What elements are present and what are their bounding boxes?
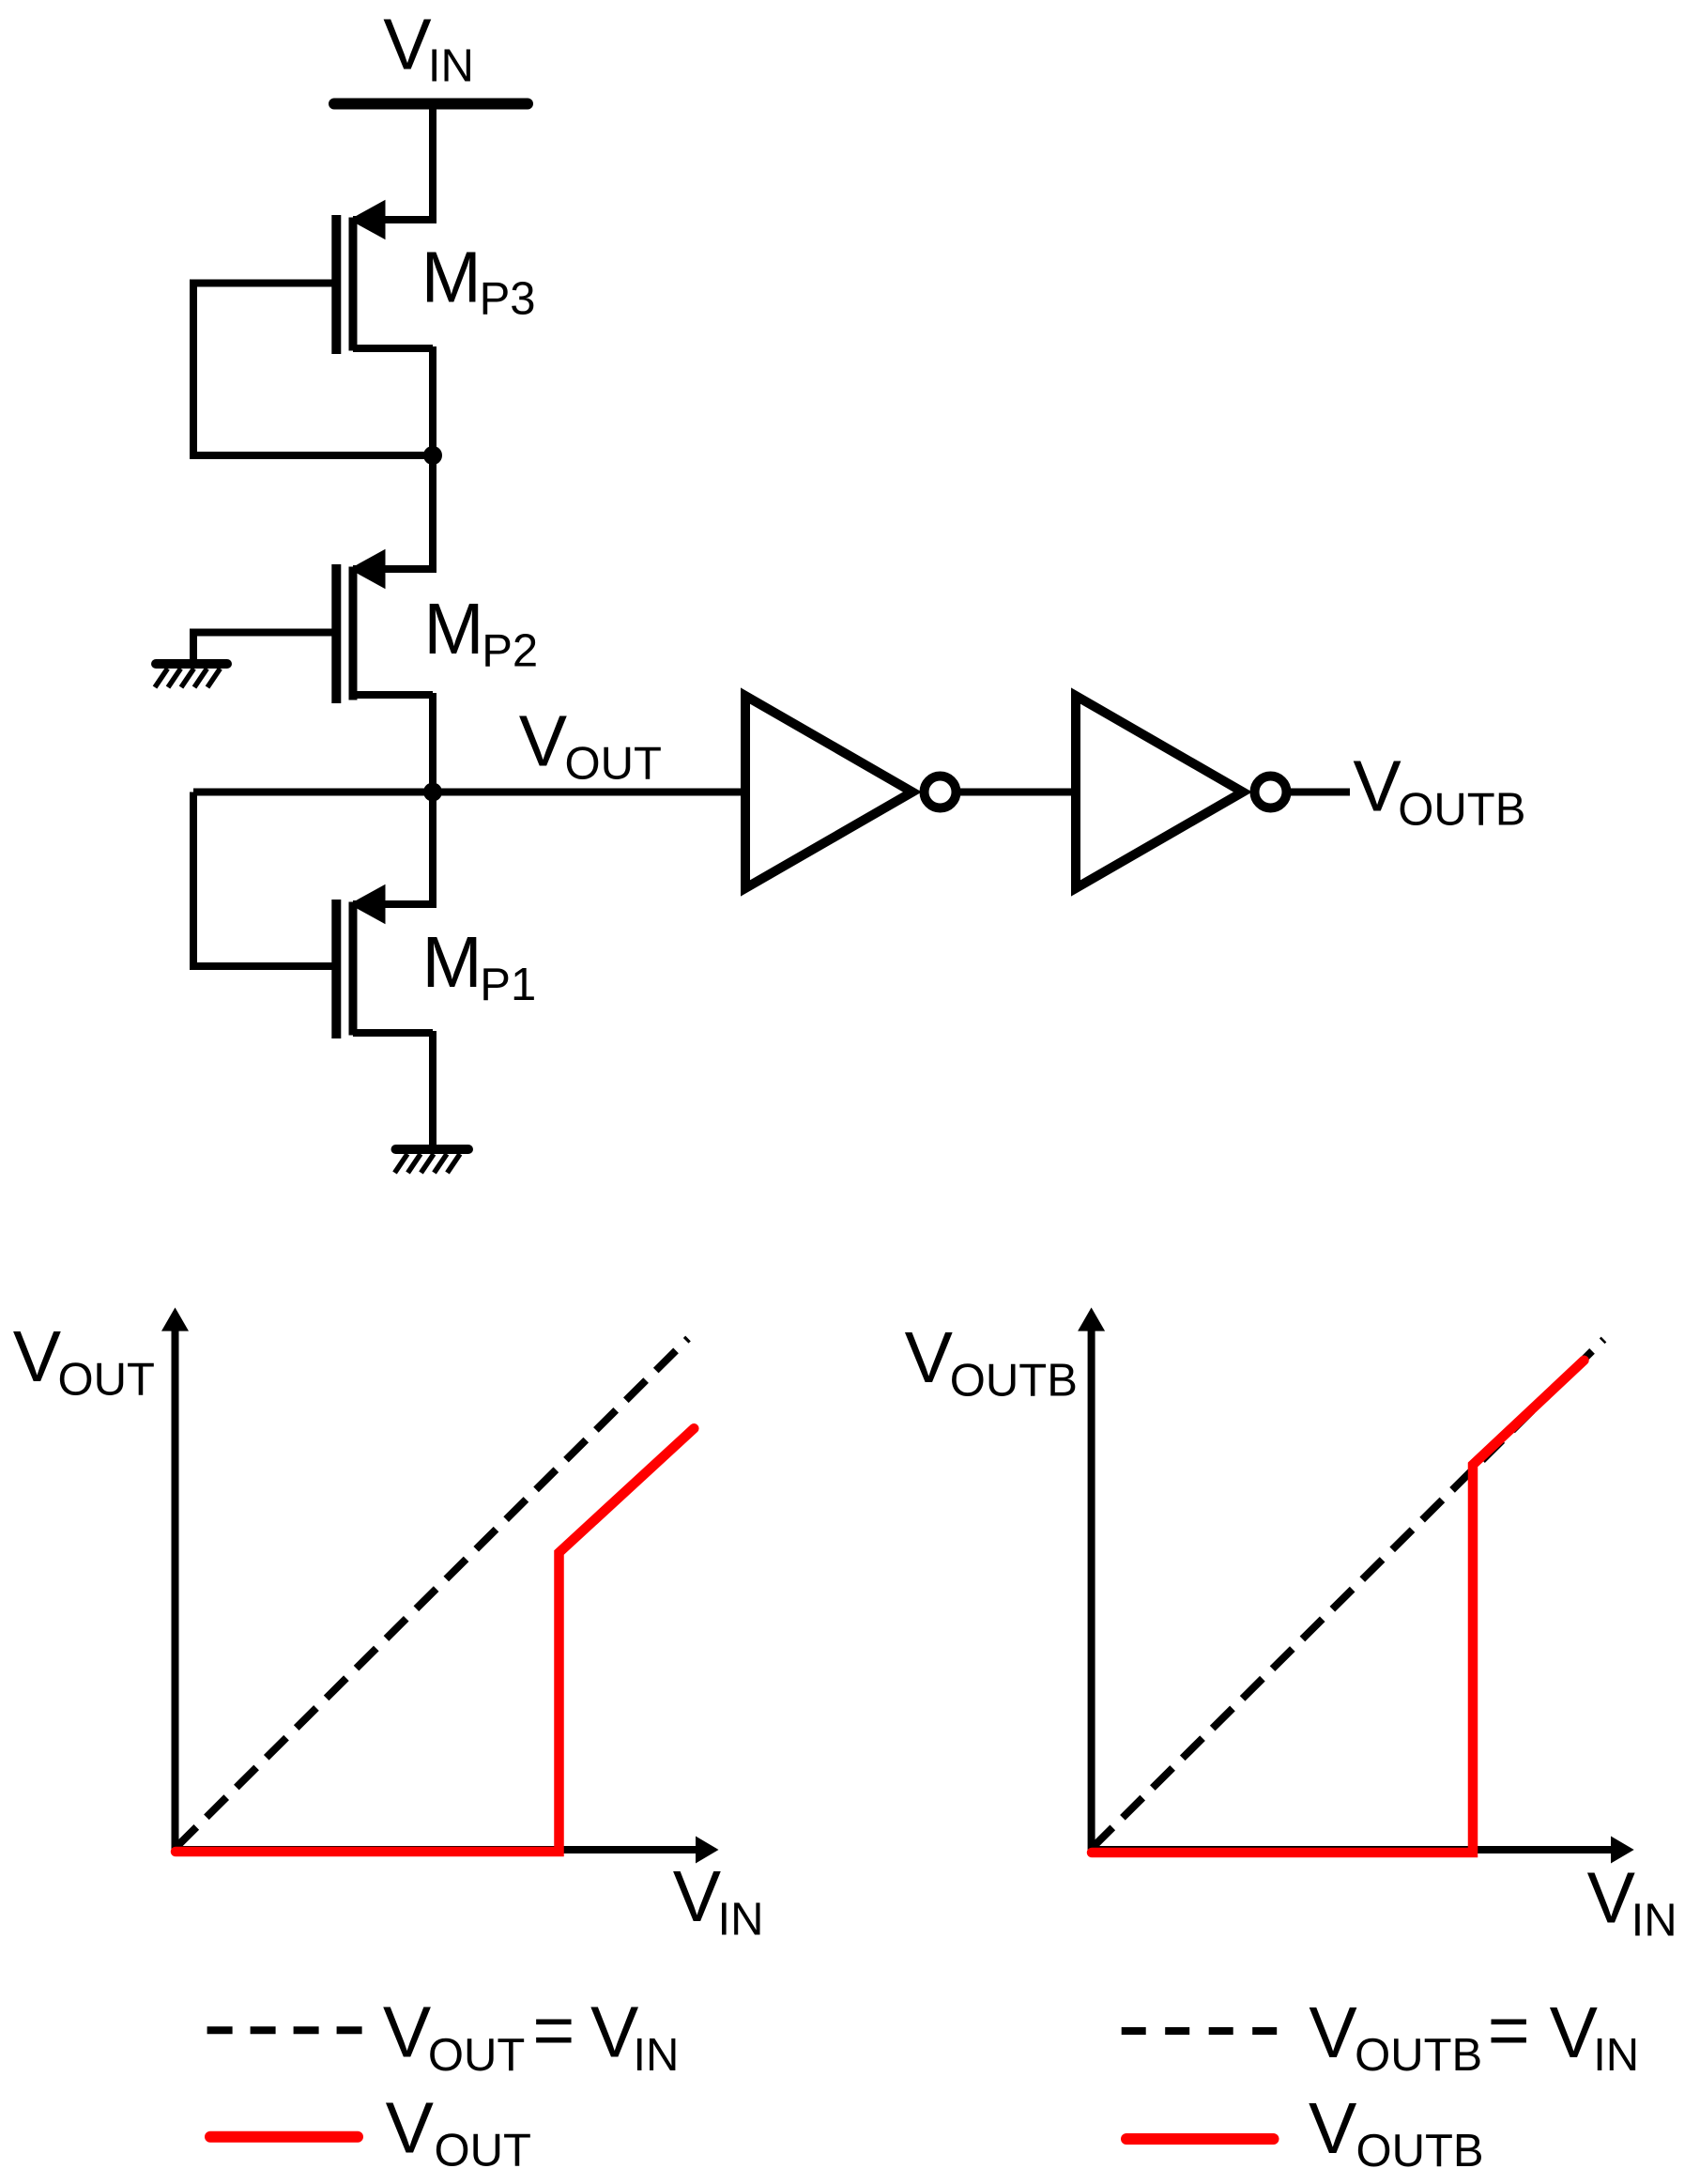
inverter U2 [1076,696,1287,888]
left graph x-axis label VIN [673,1856,764,1946]
svg-text:V: V [13,1316,62,1397]
wire MP3 drain to MP2 source [429,346,436,573]
wire MP2 drain to MP1 source [429,693,436,908]
svg-text:P1: P1 [480,960,536,1010]
left graph y-axis label VOUT [13,1316,155,1406]
svg-text:V: V [590,1992,639,2073]
left graph dashed line VOUT=VIN [176,1339,688,1848]
wire U1 to U2 [960,789,1076,796]
right legend red sample [1126,2133,1274,2145]
svg-text:V: V [673,1856,722,1937]
right graph y-axis [1078,1308,1105,1851]
svg-text:P2: P2 [482,626,538,677]
svg-text:M: M [423,589,483,669]
svg-text:M: M [421,237,482,317]
right graph red curve VOUTB [1092,1361,1585,1853]
svg-text:OUT: OUT [435,2125,531,2176]
svg-text:M: M [422,922,482,1003]
right graph x-axis label VIN [1587,1857,1677,1946]
svg-text:IN: IN [1593,2030,1639,2081]
svg-text:OUTB: OUTB [950,1355,1078,1406]
node MP3 drain junction [423,446,442,465]
svg-text:OUTB: OUTB [1355,2030,1482,2081]
svg-text:IN: IN [428,41,474,92]
svg-text:OUT: OUT [428,2030,525,2081]
svg-text:IN: IN [1631,1896,1677,1946]
right graph y-axis label VOUTB [905,1317,1078,1406]
left graph red curve VOUT [176,1428,694,1852]
wire VOUT horizontal (MP1 gate tie and to inverter) [193,789,745,796]
wire MP3 gate-drain diode loop [193,284,433,456]
svg-text:OUT: OUT [58,1355,155,1406]
transistor MP1 [331,884,433,1038]
right legend label VOUTB = VIN [1309,1991,1639,2081]
node VOUT label [519,701,662,790]
svg-text:=: = [532,1991,574,2071]
svg-text:V: V [519,701,568,782]
left graph y-axis [161,1308,189,1851]
left legend label VOUT = VIN [383,1991,680,2081]
svg-text:P3: P3 [480,274,536,325]
svg-text:OUTB: OUTB [1398,785,1525,836]
svg-text:V: V [383,1992,432,2073]
svg-text:OUT: OUT [565,738,662,789]
right graph x-axis [1092,1837,1634,1864]
left legend dashed sample [207,2026,363,2034]
ground (MP1 drain) [395,1149,469,1173]
svg-text:OUTB: OUTB [1356,2126,1484,2176]
svg-text:V: V [1309,1992,1357,2073]
ground (MP2 gate) [155,664,227,687]
VIN supply rail [334,99,528,110]
svg-text:V: V [1309,2088,1357,2169]
node VOUT junction [423,783,442,802]
node VOUTB label [1353,746,1525,836]
transistor MP2 label [423,589,538,677]
wire MP1 gate loop [193,792,336,967]
node VIN label [383,5,474,92]
svg-text:V: V [386,2087,435,2168]
transistor MP2 [331,549,433,703]
inverter U1 [745,696,957,888]
right legend dashed sample [1122,2027,1279,2035]
left legend red sample [210,2131,358,2143]
svg-text:V: V [905,1317,954,1398]
wire MP2 gate to ground [193,633,336,662]
svg-text:V: V [383,5,432,85]
left legend label VOUT [386,2087,531,2176]
svg-text:V: V [1587,1857,1636,1938]
transistor MP1 label [422,922,537,1010]
wire U2 output [1291,789,1350,796]
transistor MP3 [331,200,433,354]
left graph x-axis [176,1837,719,1864]
wire VIN rail to MP3 source [429,103,436,223]
svg-text:IN: IN [718,1895,764,1946]
right legend label VOUTB [1309,2088,1484,2176]
svg-text:V: V [1550,1992,1599,2073]
svg-text:=: = [1488,1991,1530,2071]
wire MP1 drain to ground [429,1031,436,1149]
right graph dashed line VOUTB=VIN [1093,1340,1604,1848]
transistor MP3 label [421,237,536,324]
svg-text:V: V [1353,746,1401,827]
svg-text:IN: IN [633,2030,679,2081]
